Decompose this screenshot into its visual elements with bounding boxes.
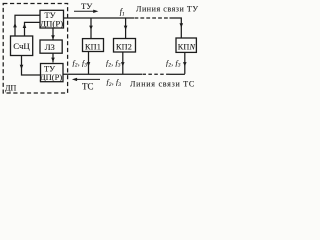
arrow down to KPN: [180, 23, 184, 27]
TS drop from KP1: [88, 51, 90, 74]
TS line dashed middle: [143, 73, 170, 75]
wire from SchTs up to top block (inner): [25, 22, 41, 35]
drop TU to KP2: [125, 18, 127, 39]
arrow into KP2: [124, 26, 128, 30]
arrow down on KPN TS drop: [183, 62, 187, 66]
arrow down into LZ: [51, 35, 55, 39]
block KP1: [83, 39, 104, 52]
arrow up on outer wire: [13, 23, 17, 28]
TU line solid left part: [64, 17, 135, 19]
block KP2: [114, 39, 136, 53]
block KPN: [176, 38, 196, 52]
arrow down on KP1 TS drop: [87, 62, 91, 66]
arrow down on SchTs bottom wire: [20, 65, 24, 69]
svg-text:СчЦ: СчЦ: [13, 41, 30, 51]
block SchTs (cycle counter): [11, 36, 33, 56]
block TU DP(R) bottom: [40, 64, 63, 83]
wire from SchTs up to top block (outer): [15, 15, 40, 35]
TU direction arrow: [74, 10, 95, 12]
arrow into KP1: [89, 26, 93, 30]
svg-text:ДП: ДП: [5, 84, 16, 93]
arrow down on KP2 TS drop: [121, 62, 125, 66]
svg-text:ТС: ТС: [82, 81, 94, 91]
TU line solid right part with corner down to KPN: [170, 18, 182, 38]
svg-text:КП1: КП1: [85, 42, 101, 51]
wire SchTs down then right into bottom block: [22, 56, 41, 76]
TS drop from KP2: [122, 52, 124, 74]
TS line solid left part: [63, 73, 142, 75]
svg-text:ДП(Р): ДП(Р): [40, 72, 62, 82]
svg-text:Линия связи ТС: Линия связи ТС: [130, 80, 195, 89]
svg-text:Линия связи ТУ: Линия связи ТУ: [136, 5, 199, 14]
svg-text:КП2: КП2: [116, 42, 132, 51]
block LZ (delay line): [40, 40, 62, 53]
svg-text:КПN: КПN: [178, 43, 196, 52]
drop TU to KP1: [90, 18, 92, 38]
TS direction arrow (leftwards): [77, 78, 101, 80]
dashed enclosure DP (dispatcher point): [3, 4, 67, 94]
TS drop from KPN: [184, 52, 186, 74]
block TU DP(R) top: [40, 10, 64, 28]
svg-text:ТУ: ТУ: [81, 1, 93, 11]
TU line dashed middle: [135, 17, 170, 19]
TS line solid right part: [170, 73, 185, 75]
wire LZ down to bottom block: [52, 53, 54, 62]
svg-text:ЛЗ: ЛЗ: [45, 42, 55, 52]
arrow down into bottom block: [51, 58, 55, 62]
svg-text:ДП(Р): ДП(Р): [40, 18, 63, 28]
wire top block down to LZ: [52, 28, 54, 40]
arrow up on inner wire: [23, 23, 27, 28]
